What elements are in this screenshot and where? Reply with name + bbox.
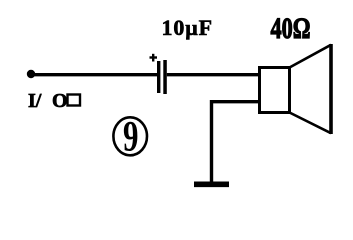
svg-text:40Ω: 40Ω	[271, 11, 311, 45]
ground symbol	[194, 182, 229, 188]
figure number 9 (circled)	[113, 113, 147, 161]
svg-text:O: O	[52, 90, 68, 112]
label: I/O port text	[28, 90, 80, 112]
svg-text:10μF: 10μF	[162, 15, 214, 40]
speaker LS1: driver body	[260, 68, 290, 113]
svg-text:I/: I/	[28, 90, 42, 112]
capacitor value label 10uF	[162, 15, 214, 40]
wire: terminal to capacitor	[32, 73, 158, 76]
wire: capacitor to speaker	[167, 73, 259, 76]
svg-text:9: 9	[123, 113, 139, 161]
capacitor C (electrolytic)	[157, 60, 167, 94]
wire: ground drop (vertical)	[210, 100, 213, 184]
speaker impedance label 40ohm	[271, 11, 311, 45]
wire: speaker lower terminal to ground drop (horizontal)	[210, 100, 259, 103]
capacitor + polarity mark	[150, 54, 158, 62]
node: I/O terminal dot	[27, 70, 35, 78]
speaker LS1: cone	[290, 44, 332, 134]
